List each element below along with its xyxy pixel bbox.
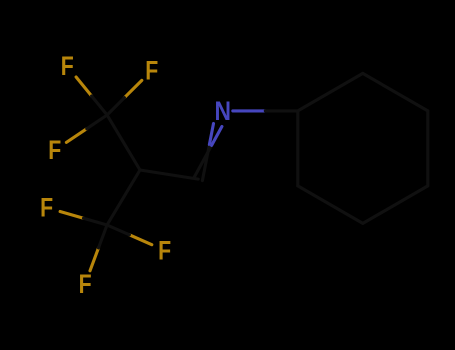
bond N-C1 (blue half) xyxy=(233,109,265,112)
bond C-F2c (dark half) xyxy=(99,225,108,248)
svg-text:N: N xyxy=(215,96,232,126)
bond C-F2a (gold half) xyxy=(60,212,83,219)
svg-text:F: F xyxy=(40,193,53,223)
bond C-F1a (gold half) xyxy=(76,77,92,96)
bond C-F1c (dark half) xyxy=(87,115,107,129)
bond C2-C3 skeleton xyxy=(107,115,140,170)
bond C-F1c (gold half) xyxy=(66,129,86,143)
svg-text:F: F xyxy=(61,51,74,81)
bond C-F2b (dark half) xyxy=(107,225,129,235)
svg-text:F: F xyxy=(158,235,171,265)
bond C3-C4 skeleton xyxy=(107,170,140,225)
ring edge C5-C6r xyxy=(298,186,363,224)
bond N-C1 (dark half) xyxy=(265,109,298,112)
C=N crossed line blue half xyxy=(209,124,213,145)
svg-text:F: F xyxy=(48,135,61,165)
C=N crossed line dark half xyxy=(202,145,209,181)
bond C-F2b (gold half) xyxy=(129,235,151,245)
bond C-F1a (dark half) xyxy=(92,96,108,115)
bond C-F2a (dark half) xyxy=(84,218,108,225)
bond C-F2c (gold half) xyxy=(90,248,99,271)
C=N crossed line blue half xyxy=(212,127,222,146)
C=N crossed line dark half xyxy=(194,145,212,177)
ring edge C1-C2 xyxy=(298,73,363,111)
bond C-F1b (dark half) xyxy=(107,98,124,115)
bond C-F1b (gold half) xyxy=(124,80,141,97)
bond C3-C2im skeleton xyxy=(140,170,198,179)
ring edge C4-C5r xyxy=(363,186,428,224)
ring edge C6-C1 xyxy=(296,111,299,186)
svg-text:F: F xyxy=(145,56,158,86)
ring edge C2-C3r xyxy=(363,73,428,111)
ring edge C3-C4r xyxy=(426,111,429,186)
svg-text:F: F xyxy=(79,269,92,299)
